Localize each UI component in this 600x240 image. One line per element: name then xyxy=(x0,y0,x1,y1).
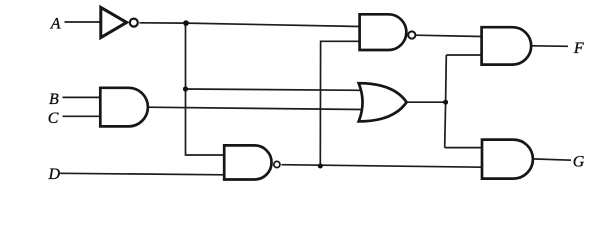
svg-text:B: B xyxy=(49,91,59,108)
svg-text:C: C xyxy=(48,110,59,127)
svg-text:A: A xyxy=(50,15,61,32)
svg-text:G: G xyxy=(573,154,585,171)
svg-text:D: D xyxy=(48,166,61,183)
svg-text:F: F xyxy=(573,40,584,57)
